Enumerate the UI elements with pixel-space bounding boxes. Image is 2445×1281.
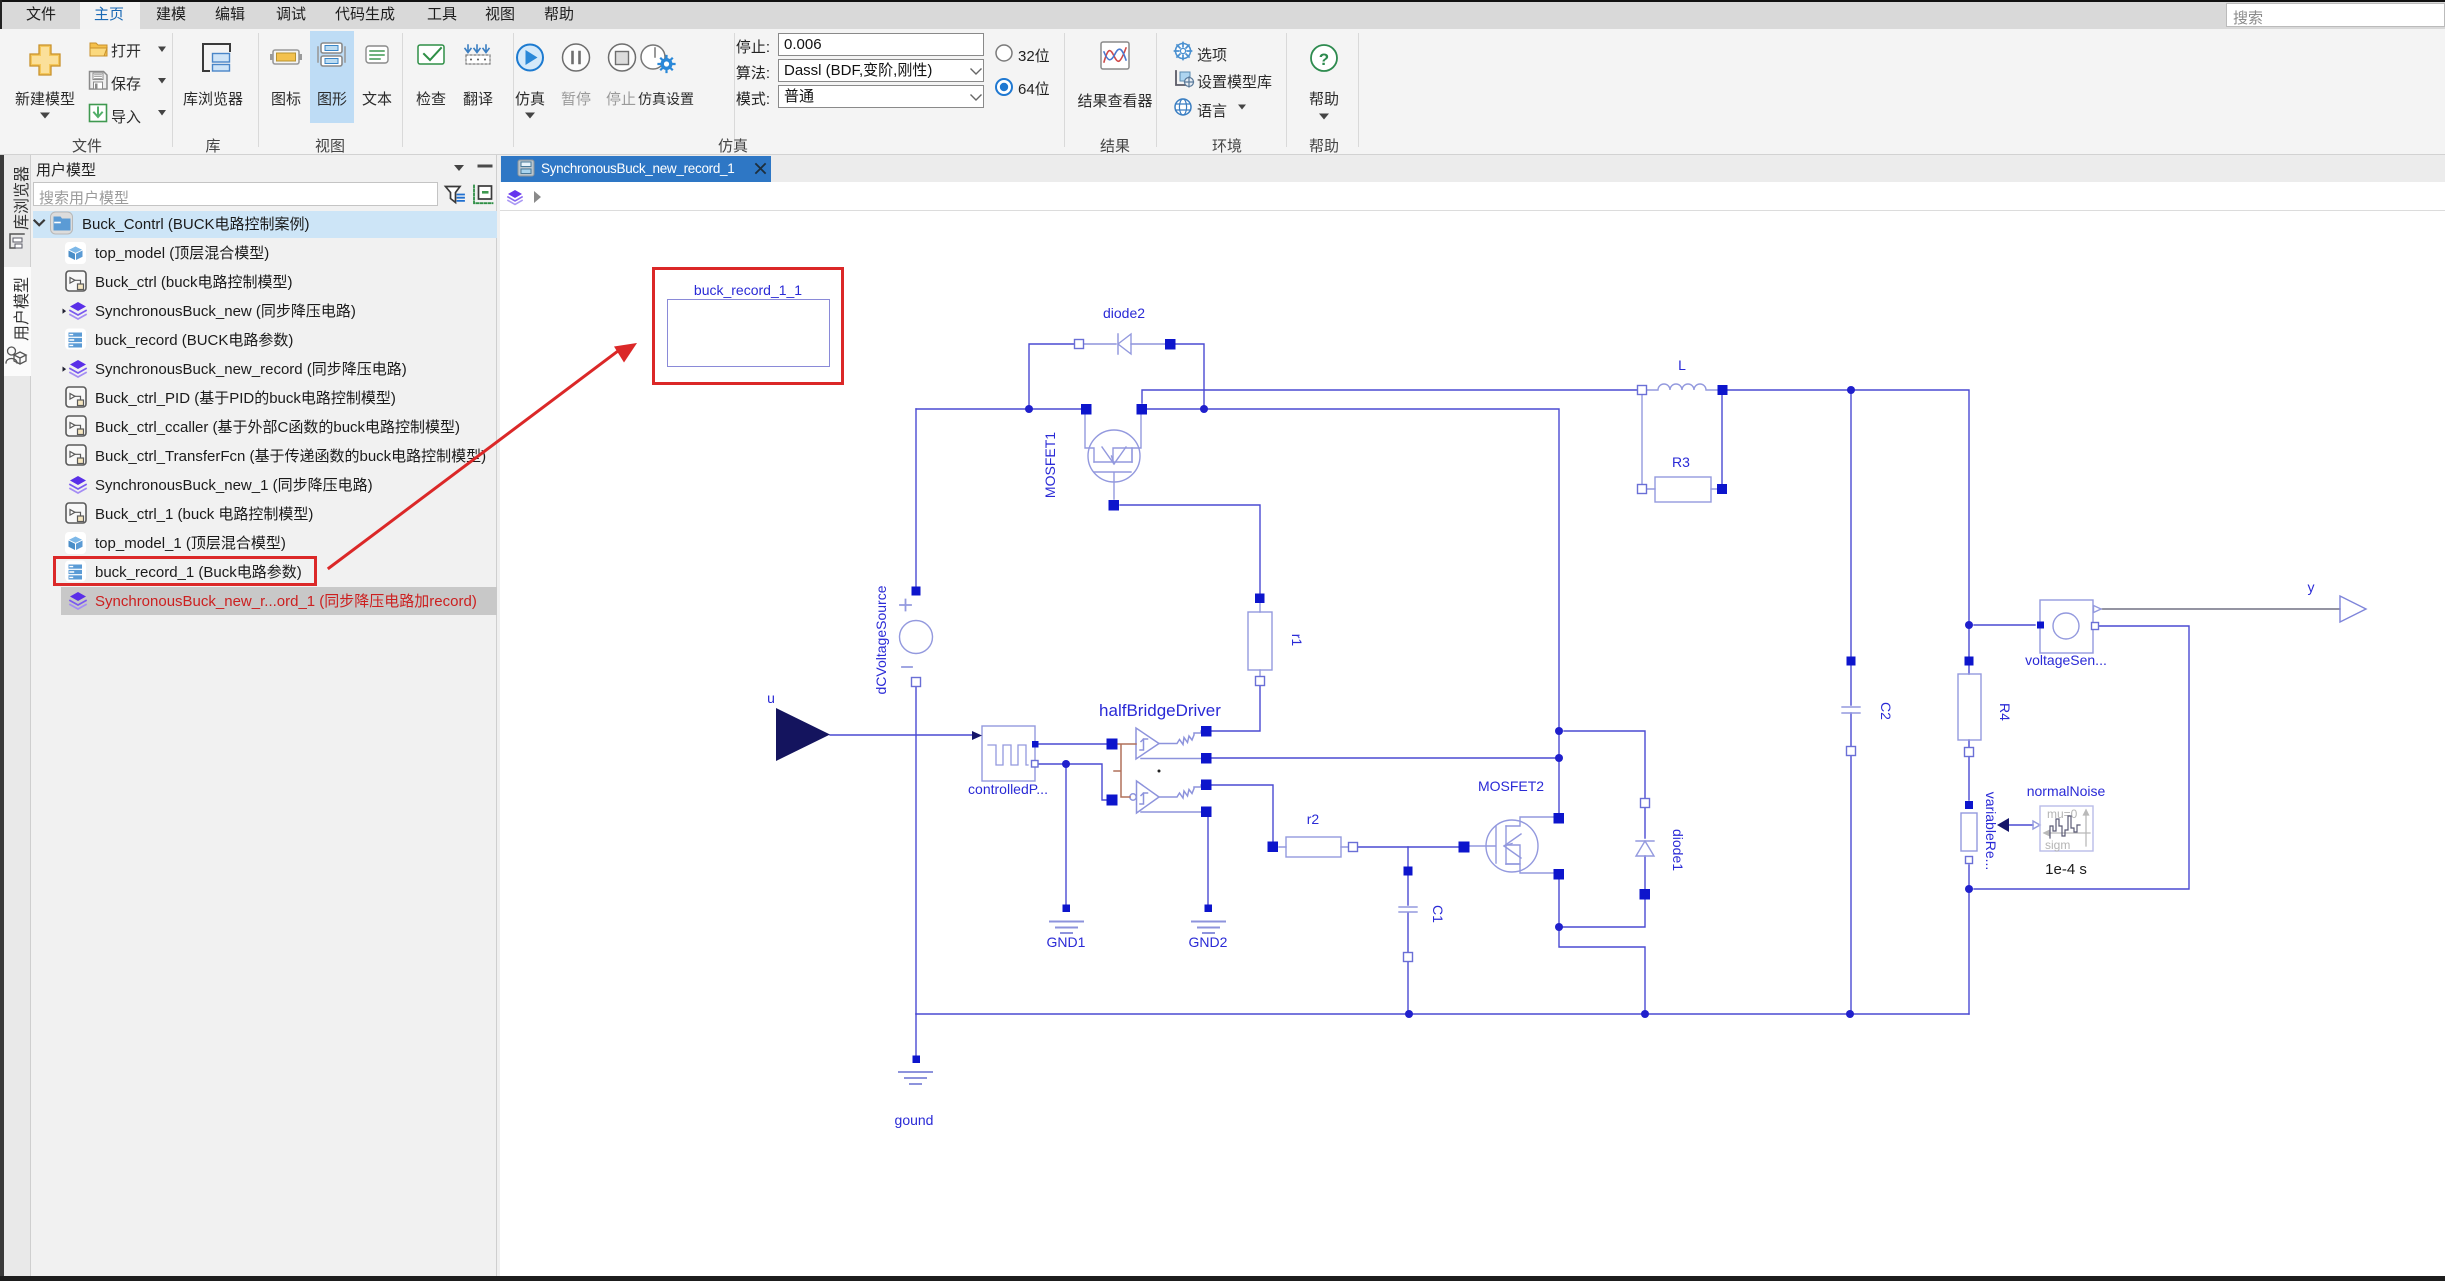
node junction C2 / ground rail — [1846, 1010, 1854, 1018]
icon 图形 — [321, 43, 342, 53]
resistor R4 — [1958, 674, 1981, 740]
driver lower buffer triangle with bubble — [1130, 794, 1136, 800]
stray dot artifact — [1158, 770, 1161, 773]
ribbon button texts — [15, 88, 75, 109]
button 图形 selected background — [310, 31, 354, 123]
red box on canvas around buck_record_1_1 — [652, 267, 844, 385]
wire driver out2 to r2 — [1211, 785, 1273, 842]
driver lower zigzag to out — [1159, 785, 1201, 798]
node junction drop / diode1 top — [1555, 727, 1563, 735]
wire L right down to R3 — [1721, 395, 1723, 484]
tree rows — [33, 211, 497, 238]
driver lower common lead — [1141, 811, 1201, 813]
pin driver out1 — [1201, 726, 1212, 737]
ground GND2 — [1192, 922, 1225, 934]
pin MOSFET1 source — [1137, 404, 1148, 415]
pin driver notFire input — [1107, 795, 1118, 806]
small dropdown triangles — [40, 47, 1329, 120]
diode diode2 — [1084, 334, 1165, 354]
svg-text:C2: C2 — [1878, 702, 1894, 720]
pin driver fire input — [1107, 739, 1118, 750]
pin diode2 cathode — [1075, 340, 1084, 349]
tab close x — [756, 164, 765, 173]
wire C1 branch — [1407, 847, 1409, 1014]
pin R3 left — [1638, 485, 1647, 494]
wire R4 chain — [1968, 666, 1970, 1014]
pin dCVoltageSource + — [912, 587, 921, 596]
pin r2 left — [1268, 842, 1279, 853]
folder icon — [51, 212, 73, 234]
icon result viewer — [1101, 42, 1129, 69]
pin pwm fire out — [1032, 741, 1039, 748]
icon pause gray — [563, 44, 590, 71]
svg-text:voltageSen...: voltageSen... — [2025, 652, 2107, 668]
icon import — [90, 105, 107, 122]
icon set model lib — [1176, 71, 1190, 85]
svg-text:halfBridgeDriver: halfBridgeDriver — [1099, 701, 1221, 720]
svg-text:u: u — [767, 690, 775, 706]
transistor MOSFET2 — [1469, 817, 1554, 873]
node junction variableRe / sensor loop — [1965, 885, 1973, 893]
icon 翻译 — [465, 45, 489, 53]
sidebar icons — [10, 234, 24, 248]
wire source to diode1 bottom — [1559, 899, 1645, 927]
output triangle y — [2340, 596, 2366, 622]
wire diode1 top leg — [1564, 731, 1645, 798]
wire diode2 right leg — [1175, 344, 1204, 409]
breadcrumb layers icon — [508, 190, 522, 205]
red annotation arrow — [329, 348, 622, 568]
node junction drop / driver mid — [1555, 754, 1563, 762]
svg-text:buck_record_1_1: buck_record_1_1 — [694, 282, 802, 298]
wire pwm notFire junction to driver low input — [1038, 764, 1106, 800]
diode diode1 — [1636, 840, 1654, 842]
svg-text:L: L — [1678, 357, 1686, 373]
svg-text:1e-4 s: 1e-4 s — [2045, 861, 2087, 878]
svg-text:y: y — [2308, 579, 2315, 595]
driver brown control lines — [1114, 744, 1136, 797]
svg-text:MOSFET2: MOSFET2 — [1478, 778, 1544, 794]
node junction R4 top / sensor — [1965, 621, 1973, 629]
wire sensor output signal to y — [2102, 608, 2341, 610]
driver upper buffer triangle — [1136, 728, 1159, 759]
wire source column top — [915, 409, 917, 586]
connection squares filled — [912, 339, 2045, 1063]
icon save floppy — [90, 72, 108, 90]
pin C1 bottom — [1404, 953, 1413, 962]
node junction diode1 leg / ground rail — [1641, 1010, 1649, 1018]
voltage source dCVoltageSource — [900, 621, 933, 654]
wire noise to variable resistor — [2009, 824, 2033, 826]
wire sensor loop right — [1974, 626, 2189, 889]
svg-text:C1: C1 — [1430, 905, 1446, 923]
icon new-model plus — [30, 45, 60, 75]
pin MOSFET2 drain — [1554, 813, 1565, 824]
driver upper zigzag to out — [1159, 731, 1201, 745]
block controlledPWM — [982, 726, 1035, 781]
resistor R3 — [1655, 477, 1711, 502]
inductor L — [1647, 384, 1718, 390]
svg-text:controlledP...: controlledP... — [968, 781, 1048, 797]
capacitor C1 plates — [1399, 907, 1417, 912]
svg-text:r1: r1 — [1289, 634, 1305, 647]
capacitor C2 plates — [1842, 707, 1860, 713]
ground symbols — [899, 922, 1225, 1085]
pin C2 top — [1847, 657, 1856, 666]
pin voltageSensor - — [2092, 623, 2099, 630]
collapse-all dashed icon — [474, 186, 493, 204]
svg-text:mu=0: mu=0 — [2047, 807, 2078, 821]
resistor r2 — [1286, 837, 1341, 857]
wire driver out1 to r1 — [1211, 686, 1260, 731]
node junction C1 / ground rail — [1405, 1010, 1413, 1018]
svg-text:R3: R3 — [1672, 454, 1690, 470]
wire diode2 left leg — [1029, 344, 1074, 409]
block voltageSensor — [2040, 600, 2093, 653]
pin r1 top — [1255, 594, 1265, 604]
search box top right — [2226, 3, 2445, 27]
tree layers icons — [70, 302, 86, 319]
tree block icons (model diagrams) — [66, 271, 86, 291]
pin L left — [1638, 386, 1647, 395]
pin MOSFET2 gate — [1459, 842, 1470, 853]
svg-text:R4: R4 — [1997, 703, 2013, 721]
icon simulate play — [517, 45, 543, 71]
schematic labels — [694, 282, 2315, 1128]
block normalNoise frame — [2040, 806, 2093, 851]
wire diode1 body leg — [1644, 808, 1646, 889]
connection squares open — [912, 340, 2099, 962]
pin GND1 — [1063, 905, 1071, 913]
wire gound stub — [915, 1014, 917, 1055]
icon language globe — [1175, 99, 1191, 115]
svg-text:variableRe...: variableRe... — [1983, 792, 1999, 871]
svg-text:dCVoltageSource: dCVoltageSource — [873, 585, 889, 694]
resistor r1 — [1248, 612, 1272, 670]
component symbols, light stroke — [900, 334, 2367, 912]
pin C2 bottom — [1847, 747, 1856, 756]
expander open — [35, 221, 44, 226]
wire L left down to R3 (light) — [1641, 395, 1643, 484]
pin r1 bottom — [1256, 677, 1265, 686]
red box in tree — [53, 556, 317, 586]
wire bottom rail — [916, 1013, 1969, 1015]
icon 图标 — [273, 50, 299, 64]
icon help question — [1311, 45, 1337, 71]
wire GND2 leg — [1207, 817, 1209, 904]
pin MOSFET1 gate — [1109, 500, 1120, 511]
ground gound — [899, 1072, 932, 1084]
wire pwm fire to driver — [1038, 743, 1106, 745]
pin L right — [1718, 385, 1728, 395]
pin R4 bottom — [1965, 748, 1974, 757]
icon stop gray — [609, 44, 636, 71]
icon sim settings gear — [641, 45, 665, 69]
svg-text:?: ? — [1319, 50, 1329, 69]
wire u to controlledPWM — [830, 734, 972, 736]
icon open folder — [90, 43, 107, 56]
node junction pwm out / GND1 — [1062, 760, 1070, 768]
svg-text:GND1: GND1 — [1047, 934, 1086, 950]
tree record icons — [65, 329, 86, 350]
pin diode1 anode — [1640, 889, 1651, 900]
svg-text:gound: gound — [895, 1112, 934, 1128]
node junction diode2 left / rail — [1025, 405, 1033, 413]
wire main top rail left — [916, 408, 1081, 410]
driver upper common lead — [1141, 758, 1201, 760]
pin dCVoltageSource - — [912, 678, 921, 687]
input arrow u — [776, 708, 830, 761]
icon library browser — [203, 44, 230, 71]
svg-text:r2: r2 — [1307, 811, 1320, 827]
wire r2 to MOSFET2 gate — [1358, 846, 1458, 848]
svg-text:normalNoise: normalNoise — [2027, 783, 2106, 799]
transistor MOSFET1 — [1085, 414, 1141, 499]
svg-text:diode2: diode2 — [1103, 305, 1145, 321]
bottom window edge — [0, 1276, 2445, 1281]
svg-text:diode1: diode1 — [1670, 829, 1686, 871]
search funnel icon — [446, 187, 461, 203]
wire R4 node to sensor — [1974, 624, 2035, 626]
wire driver mid to node — [1211, 757, 1559, 759]
wire MOSFET2 source down — [1559, 879, 1645, 1014]
wire MOSFET1 source up to L rail — [1142, 390, 1637, 403]
pin R3 right — [1717, 484, 1727, 494]
radio 64bit selected — [996, 79, 1012, 95]
variable resistor variableRe — [1961, 813, 1977, 851]
icon options gear — [1176, 44, 1191, 59]
pin gound — [913, 1056, 921, 1064]
icon 文本 — [366, 46, 388, 63]
combo chevrons — [971, 69, 981, 100]
pin driver common1 — [1201, 753, 1212, 764]
pin variableRe bottom — [1966, 857, 1973, 864]
arrow normalNoise to variableRe — [1997, 818, 2009, 832]
wire L to C2 and R4 corner — [1728, 390, 1969, 656]
pin MOSFET1 drain — [1081, 404, 1092, 415]
svg-text:GND2: GND2 — [1189, 934, 1228, 950]
pin C1 top — [1404, 867, 1413, 876]
wire rail to 1559 and drop to MOSFET2 — [1147, 409, 1559, 813]
halfBridgeDriver internals — [1130, 728, 1201, 813]
tree cube icons — [65, 242, 86, 264]
wire C2 column — [1850, 390, 1852, 1014]
pin driver out2 — [1201, 780, 1212, 791]
radio 32bit — [996, 45, 1012, 61]
pin GND2 — [1205, 905, 1213, 913]
pin R4 top — [1965, 657, 1974, 666]
wire r1 to MOSFET1 gate — [1120, 505, 1260, 593]
pin r2 right — [1349, 843, 1358, 852]
ground GND1 — [1050, 922, 1083, 934]
wire GND1 leg — [1065, 764, 1067, 904]
pin driver common2 — [1201, 807, 1212, 818]
pin MOSFET2 source — [1554, 869, 1565, 880]
node junction MOSFET2 source / diode1 bottom — [1555, 923, 1563, 931]
pin variableRe top — [1965, 801, 1973, 809]
tab document icon — [518, 160, 534, 176]
node junction diode2 right / rail — [1200, 405, 1208, 413]
node junction dots — [1025, 386, 1973, 1018]
node junction C2 top / L rail — [1847, 386, 1855, 394]
fields — [700, 36, 770, 57]
pin diode2 anode — [1165, 339, 1176, 350]
icon 检查 — [418, 45, 444, 64]
wire source column bottom — [915, 687, 917, 1014]
svg-text:MOSFET1: MOSFET1 — [1042, 432, 1058, 498]
svg-text:sigm: sigm — [2045, 838, 2070, 852]
normalNoise internals — [2044, 810, 2090, 846]
pin pwm notFire out — [1032, 761, 1039, 768]
pin diode1 cathode — [1641, 799, 1650, 808]
